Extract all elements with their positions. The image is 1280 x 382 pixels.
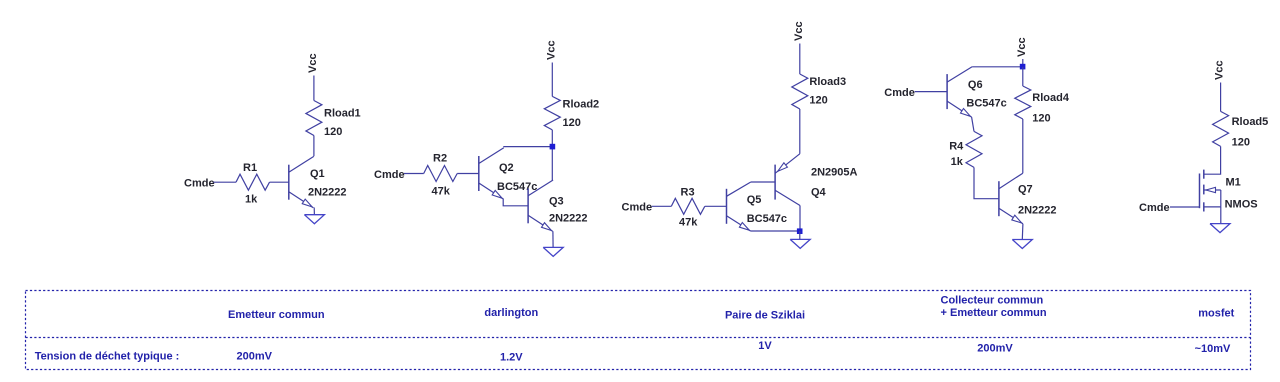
svg-text:Rload3: Rload3	[809, 76, 846, 88]
wire Rload3 to Q4 emitter	[799, 109, 801, 154]
resistor R1	[236, 174, 270, 190]
transistor Q3 emitter	[528, 215, 553, 231]
svg-text:120: 120	[324, 126, 342, 138]
svg-text:R1: R1	[243, 162, 257, 174]
svg-text:Vcc: Vcc	[793, 21, 805, 41]
svg-text:120: 120	[809, 95, 827, 107]
transistor Q2 base bar	[478, 156, 480, 191]
table row separator dashed line	[26, 337, 1251, 339]
transistor Q5 emitter	[727, 216, 751, 231]
svg-text:Q2: Q2	[499, 162, 514, 174]
svg-text:Paire de Sziklai: Paire de Sziklai	[725, 310, 805, 322]
wire Vcc stub	[1022, 59, 1024, 67]
svg-text:2N2905A: 2N2905A	[811, 167, 858, 179]
svg-text:1.2V: 1.2V	[500, 352, 523, 364]
svg-text:Q6: Q6	[968, 79, 983, 91]
transistor Q2 collector	[479, 148, 504, 164]
wire Q1 emitter to ground	[313, 208, 315, 215]
wire Rload1 to Q1 collector	[313, 136, 315, 157]
svg-text:1k: 1k	[245, 194, 258, 206]
svg-text:47k: 47k	[679, 217, 698, 229]
svg-text:120: 120	[1232, 137, 1250, 149]
wire Cmde to R1	[213, 181, 236, 183]
mosfet M1 body stub	[1204, 189, 1221, 191]
wire Cmde to Q6 base	[915, 91, 948, 93]
transistor Q4 emitter	[775, 154, 800, 174]
wire Vcc to Rload1	[313, 76, 315, 101]
ground (circuit 4)	[1012, 240, 1032, 249]
svg-text:1k: 1k	[951, 156, 964, 168]
ground (circuit 3)	[790, 239, 810, 248]
ground (circuit 1)	[304, 215, 324, 224]
svg-text:R4: R4	[949, 141, 964, 153]
transistor Q6 emitter	[947, 101, 972, 117]
ground (circuit 2)	[543, 247, 563, 256]
svg-text:Tension de déchet typique :: Tension de déchet typique :	[35, 351, 180, 363]
wire Q7 emitter to ground	[1021, 224, 1024, 240]
junction node (circuit 2)	[550, 144, 556, 150]
wire Q3 emitter to ground	[552, 231, 554, 247]
transistor Q7 collector	[999, 173, 1023, 189]
resistor R4	[966, 131, 982, 167]
svg-text:Q4: Q4	[811, 187, 827, 199]
table outer dashed border	[26, 291, 1251, 370]
transistor Q6 emitter arrow	[961, 109, 971, 117]
junction node (circuit 3)	[797, 228, 803, 234]
svg-text:BC547c: BC547c	[497, 181, 537, 193]
wire Q2 emitter to Q3 base	[503, 199, 528, 206]
svg-text:Rload4: Rload4	[1032, 92, 1070, 104]
svg-text:Vcc: Vcc	[1214, 60, 1226, 80]
mosfet M1 body-source link	[1220, 190, 1222, 207]
wire Vcc node to Rload4	[1022, 67, 1024, 86]
svg-text:Q3: Q3	[549, 196, 564, 208]
resistor Rload2	[544, 96, 560, 129]
svg-text:47k: 47k	[432, 186, 451, 198]
transistor Q7 emitter arrow	[1012, 215, 1022, 223]
transistor Q3 emitter arrow	[542, 223, 552, 231]
svg-text:2N2222: 2N2222	[308, 187, 347, 199]
resistor Rload4	[1015, 86, 1031, 119]
wire Q5 collector to Q4 base	[751, 181, 775, 183]
wire Vcc to Rload2	[551, 63, 553, 97]
svg-text:M1: M1	[1226, 177, 1241, 189]
transistor Q4 base bar	[774, 165, 776, 200]
wire Q6 collector to Vcc node	[972, 66, 1023, 68]
transistor Q6 base bar	[946, 74, 948, 109]
transistor Q6 collector	[947, 67, 972, 82]
wire M1 source to ground	[1220, 207, 1222, 224]
svg-text:Rload2: Rload2	[563, 99, 600, 111]
svg-text:Cmde: Cmde	[184, 178, 215, 190]
svg-text:Cmde: Cmde	[1139, 202, 1170, 214]
svg-text:mosfet: mosfet	[1198, 308, 1234, 320]
svg-text:Rload5: Rload5	[1232, 116, 1269, 128]
svg-text:Rload1: Rload1	[324, 108, 361, 120]
transistor Q7 base bar	[998, 181, 1000, 216]
transistor Q1 emitter	[289, 192, 314, 208]
wire Rload2 to collector node	[551, 130, 553, 180]
junction node (circuit 4)	[1020, 64, 1026, 70]
wire Cmde to M1 gate	[1170, 206, 1200, 208]
wire Rload4 to Q7 collector	[1022, 119, 1024, 173]
wire R4 to Q7 base	[974, 167, 999, 198]
svg-text:Cmde: Cmde	[622, 202, 653, 214]
wire Cmde to R2	[404, 173, 424, 175]
svg-text:Vcc: Vcc	[307, 53, 319, 73]
mosfet M1 body arrow	[1206, 187, 1216, 192]
svg-text:200mV: 200mV	[977, 343, 1013, 355]
svg-text:Vcc: Vcc	[1016, 37, 1028, 57]
svg-text:2N2222: 2N2222	[1018, 205, 1057, 217]
svg-text:~10mV: ~10mV	[1195, 343, 1231, 355]
transistor Q7 emitter	[999, 208, 1023, 224]
svg-text:200mV: 200mV	[237, 351, 273, 363]
svg-text:+ Emetteur commun: + Emetteur commun	[941, 307, 1047, 319]
svg-text:Q5: Q5	[747, 194, 762, 206]
resistor Rload3	[792, 74, 808, 109]
svg-text:Cmde: Cmde	[374, 169, 405, 181]
svg-text:120: 120	[563, 117, 581, 129]
svg-text:2N2222: 2N2222	[549, 213, 588, 225]
transistor Q5 emitter arrow	[739, 223, 749, 231]
transistor Q2 emitter	[479, 183, 504, 199]
resistor R2	[424, 166, 458, 182]
wire R2 to Q2 base	[457, 173, 479, 175]
transistor Q3 collector	[528, 180, 553, 196]
svg-text:R3: R3	[681, 187, 695, 199]
transistor Q1 emitter arrow	[302, 199, 312, 207]
wire Q5 emitter to ground node	[751, 230, 801, 232]
svg-text:BC547c: BC547c	[747, 213, 787, 225]
svg-text:Vcc: Vcc	[545, 40, 557, 60]
resistor Rload5	[1213, 111, 1229, 146]
mosfet M1 channel segments	[1203, 170, 1205, 179]
transistor Q3 base bar	[527, 188, 529, 223]
transistor Q1 collector	[289, 156, 314, 172]
wire R3 to Q5 base	[705, 205, 727, 207]
wire R1 to Q1 base	[270, 181, 289, 183]
svg-text:Cmde: Cmde	[884, 87, 915, 99]
wire Q2 collector to node	[503, 146, 552, 148]
mosfet M1 gate bar	[1199, 174, 1201, 209]
svg-text:Emetteur commun: Emetteur commun	[228, 309, 325, 321]
wire Vcc to Rload5	[1220, 83, 1222, 112]
resistor R3	[671, 198, 705, 214]
svg-text:BC547c: BC547c	[966, 98, 1006, 110]
svg-text:Q1: Q1	[310, 168, 325, 180]
wire Vcc to Rload3	[799, 44, 801, 75]
svg-text:Collecteur commun: Collecteur commun	[941, 295, 1044, 307]
svg-text:R2: R2	[433, 153, 447, 165]
ground (circuit 5)	[1210, 224, 1230, 233]
transistor Q1 base bar	[288, 165, 290, 200]
transistor Q5 collector	[727, 182, 751, 196]
wire Q6 emitter to R4	[972, 117, 974, 131]
wire Cmde to R3	[652, 205, 672, 207]
mosfet M1 source stub	[1204, 206, 1221, 208]
transistor Q2 emitter arrow	[492, 190, 502, 198]
transistor Q5 base bar	[726, 189, 728, 224]
resistor Rload1	[306, 101, 322, 136]
svg-text:120: 120	[1032, 113, 1050, 125]
transistor Q4 collector	[775, 190, 800, 205]
wire node to ground	[799, 231, 801, 239]
svg-text:1V: 1V	[758, 340, 772, 352]
wire Q4 collector to ground node	[799, 206, 801, 232]
svg-text:darlington: darlington	[484, 307, 538, 319]
transistor Q4 emitter arrow (PNP)	[778, 163, 788, 171]
wire Rload5 to M1 drain	[1204, 146, 1221, 174]
svg-text:Q7: Q7	[1018, 184, 1033, 196]
svg-text:NMOS: NMOS	[1225, 199, 1258, 211]
